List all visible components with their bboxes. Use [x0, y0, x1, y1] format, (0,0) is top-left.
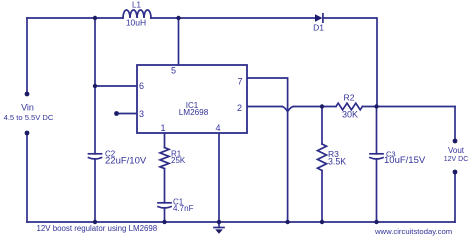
svg-text:10uH: 10uH — [126, 18, 146, 28]
node Vout upper terminal — [453, 139, 458, 144]
node junction dots — [25, 16, 458, 224]
wire C2 column lower — [94, 159, 96, 222]
capacitor C3 — [370, 154, 383, 159]
wire C3 column lower — [376, 159, 378, 222]
resistor R1 — [160, 148, 169, 169]
svg-text:4: 4 — [215, 123, 220, 133]
svg-text:D1: D1 — [313, 23, 324, 33]
svg-text:12V DC: 12V DC — [444, 156, 469, 163]
wire Vin lower segment — [26, 133, 28, 222]
wire Vin upper segment — [26, 18, 28, 94]
wire top rail L1 to D1 — [151, 17, 315, 19]
node Vin lower terminal — [25, 131, 30, 136]
svg-text:25K: 25K — [171, 156, 186, 165]
wire pin1 stub — [164, 133, 166, 148]
wire R1 to C1 — [164, 169, 166, 203]
capacitor C2 — [89, 154, 102, 159]
ground symbol — [214, 222, 224, 234]
wire R3 column lower — [321, 171, 323, 223]
wire bottom ground rail — [27, 221, 455, 223]
svg-text:4.7nF: 4.7nF — [173, 204, 194, 213]
diode D1 — [315, 14, 323, 22]
inductor L1 — [123, 10, 151, 18]
svg-text:2: 2 — [237, 103, 242, 113]
node ground rail / C3 — [374, 220, 378, 224]
wire hop over pin7 vertical — [282, 107, 294, 112]
node feedback row / R3 — [320, 104, 324, 108]
wire pin4 stub to ground rail — [218, 133, 220, 222]
node pin6 / C2 column — [93, 84, 97, 88]
wire Vout lower segment — [454, 172, 456, 222]
svg-text:Vout: Vout — [448, 146, 465, 155]
op-amp U1 : IC1 LM2698 box — [137, 65, 247, 133]
node pin3 stub end — [114, 111, 119, 116]
svg-text:5: 5 — [171, 66, 176, 76]
svg-text:10uF/15V: 10uF/15V — [384, 155, 426, 166]
capacitor C1 — [158, 203, 171, 208]
svg-text:L1: L1 — [132, 1, 141, 10]
node ground rail / pin4 — [217, 220, 221, 224]
svg-text:R2: R2 — [344, 93, 355, 103]
node ground rail / pin7 column — [285, 220, 289, 224]
svg-text:7: 7 — [237, 77, 242, 87]
wire pin6 stub — [95, 85, 137, 87]
svg-text:3: 3 — [139, 109, 144, 119]
wire pin3 stub — [117, 113, 138, 115]
resistor R3 — [318, 144, 327, 170]
wire D1 to top-right corner and down — [324, 18, 377, 107]
wire pin2 feedback row left part — [247, 106, 282, 108]
svg-text:30K: 30K — [342, 110, 358, 120]
svg-text:12V boost regulator using LM26: 12V boost regulator using LM2698 — [37, 224, 158, 233]
svg-text:3.5K: 3.5K — [328, 157, 346, 167]
wire Vout upper segment — [454, 107, 456, 142]
node feedback row / C3 column — [374, 104, 378, 108]
node Vout lower terminal — [453, 170, 458, 175]
resistor R2 — [336, 103, 362, 110]
wire pin7 to right and down — [247, 78, 288, 222]
wire R3 column upper — [321, 107, 323, 145]
wire top rail left of L1 — [27, 17, 123, 19]
wire pin5 stub — [178, 18, 180, 65]
node Vin upper terminal — [25, 92, 30, 97]
wire C3 column upper — [376, 107, 378, 154]
svg-text:6: 6 — [139, 81, 144, 91]
node ground rail / R3 — [320, 220, 324, 224]
svg-text:22uF/10V: 22uF/10V — [105, 156, 147, 167]
svg-text:Vin: Vin — [21, 103, 34, 113]
svg-text:4.5 to 5.5V DC: 4.5 to 5.5V DC — [4, 113, 54, 122]
svg-text:LM2698: LM2698 — [179, 108, 209, 117]
wire C1 to ground rail — [164, 208, 166, 222]
wire feedback row to R2 — [294, 106, 337, 108]
svg-text:www.circuitstoday.com: www.circuitstoday.com — [374, 227, 452, 236]
node top rail / pin5 stub — [176, 16, 180, 20]
node ground rail / C2 — [93, 220, 97, 224]
svg-text:1: 1 — [160, 123, 165, 133]
node ground rail / C1 — [162, 220, 166, 224]
node top rail / C2 column — [93, 16, 97, 20]
wire C2 column upper — [94, 18, 96, 154]
wire R2 to Vout corner — [362, 106, 455, 108]
